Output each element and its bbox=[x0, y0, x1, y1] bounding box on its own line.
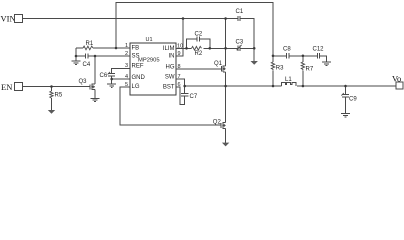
svg-text:L1: L1 bbox=[285, 77, 292, 83]
wire BST loop to C7 bottom bbox=[176, 87, 185, 104]
port VIN bbox=[1, 13, 23, 23]
capacitor C12 bbox=[313, 46, 325, 58]
svg-text:C8: C8 bbox=[283, 46, 291, 52]
svg-text:Q2: Q2 bbox=[213, 119, 222, 125]
ground (GND pin / C6, bar style) bbox=[107, 84, 116, 87]
node C8/C12/R7 bbox=[302, 55, 305, 58]
svg-text:2: 2 bbox=[125, 51, 128, 57]
wire R5 bottom stem bbox=[51, 98, 53, 111]
svg-text:6: 6 bbox=[178, 82, 181, 88]
wire C6 bottom to ground node bbox=[111, 76, 113, 84]
node SW/C7/rail bbox=[183, 85, 186, 88]
svg-text:EN: EN bbox=[1, 82, 12, 92]
svg-text:C4: C4 bbox=[83, 62, 91, 68]
capacitor C9 bbox=[342, 94, 349, 97]
node C3/PGND bbox=[253, 47, 256, 50]
node rail/C9 bbox=[344, 85, 347, 88]
svg-text:IN: IN bbox=[169, 54, 175, 60]
wire SS line left of C4 bbox=[76, 55, 85, 57]
wire IN riser from VIN rail bbox=[176, 19, 183, 57]
svg-text:R1: R1 bbox=[86, 41, 94, 47]
wire LG line down and to Q2 gate bbox=[120, 87, 221, 125]
wire ILIM line bbox=[176, 47, 192, 49]
node VIN/Q1 riser bbox=[224, 17, 227, 20]
svg-text:Q1: Q1 bbox=[214, 61, 223, 67]
pin 4 GND stub bbox=[122, 78, 130, 80]
svg-text:R7: R7 bbox=[306, 67, 314, 73]
wire C2 branch bbox=[187, 39, 197, 48]
node GND/C6 bbox=[110, 78, 113, 81]
node rail/R3 bbox=[272, 85, 275, 88]
wire SS line right of C4 bbox=[89, 55, 131, 57]
op-amp U1 MP2905 controller box bbox=[122, 37, 185, 95]
svg-text:C12: C12 bbox=[313, 46, 325, 52]
pin 5 LG stub bbox=[122, 86, 130, 88]
resistor R5 bbox=[50, 91, 63, 98]
wire Q1 drain riser bbox=[225, 48, 227, 66]
node rail/R7 bbox=[302, 85, 305, 88]
pin 3 REF stub bbox=[122, 68, 130, 70]
wire C9 stems bbox=[345, 86, 347, 94]
node C2 right bbox=[209, 47, 212, 50]
node FB riser bbox=[115, 47, 118, 50]
svg-text:C6: C6 bbox=[100, 73, 108, 79]
svg-text:C2: C2 bbox=[195, 32, 203, 38]
node EN/R5 bbox=[50, 85, 53, 88]
port Vo bbox=[392, 74, 403, 90]
wire C1 to corner down to PGND node bbox=[241, 19, 255, 49]
svg-text:MP2905: MP2905 bbox=[138, 57, 160, 63]
ground (C4 left, bar style) bbox=[72, 56, 81, 64]
transistor Q2 bbox=[221, 122, 226, 129]
svg-text:C9: C9 bbox=[349, 96, 357, 102]
svg-text:9: 9 bbox=[178, 51, 181, 57]
svg-text:U1: U1 bbox=[146, 37, 153, 43]
pin 10 ILIM stub bbox=[176, 47, 184, 49]
transistor Q1 bbox=[221, 66, 225, 73]
wire HG line to Q1 gate bbox=[176, 68, 221, 70]
svg-text:7: 7 bbox=[178, 74, 181, 80]
wire R5 top stem bbox=[51, 87, 53, 92]
wire C12 right corner to ground bbox=[320, 56, 327, 62]
capacitor C6 bbox=[108, 73, 115, 76]
pin 2 SS stub bbox=[122, 55, 130, 57]
inductor L1 bbox=[282, 77, 296, 86]
wire FB / R1 line bbox=[76, 47, 83, 49]
svg-text:BST: BST bbox=[163, 85, 175, 91]
wire SS riser down to Q3 drain bbox=[94, 56, 96, 84]
ground (C9, bar style) bbox=[341, 114, 350, 117]
pin 9 IN stub bbox=[176, 55, 183, 57]
wire top feedback rail bbox=[116, 3, 273, 56]
svg-text:C7: C7 bbox=[190, 94, 198, 100]
wire Q3 source stem bbox=[94, 89, 96, 98]
wire REF line to C6 bbox=[112, 69, 130, 74]
svg-text:FB: FB bbox=[132, 46, 140, 52]
port EN bbox=[1, 82, 23, 92]
svg-text:GND: GND bbox=[132, 75, 146, 81]
ground (Q2 source arrow style) bbox=[222, 143, 229, 147]
capacitor C2 bbox=[195, 32, 203, 42]
ground (Q3 source, bar style) bbox=[91, 98, 100, 101]
svg-text:ILIM: ILIM bbox=[163, 46, 175, 52]
pin 6 BST stub bbox=[176, 86, 180, 88]
svg-text:8: 8 bbox=[178, 64, 181, 70]
ground (R5 arrow style) bbox=[48, 110, 55, 114]
svg-text:1: 1 bbox=[125, 43, 128, 49]
capacitor C8 bbox=[283, 46, 291, 58]
node SS/C4/Q3 bbox=[94, 55, 97, 58]
wire GND pin line bbox=[112, 78, 130, 80]
node junction dots bbox=[50, 17, 347, 88]
wire SW stub down to C7 bbox=[176, 79, 185, 93]
resistor R1 bbox=[83, 41, 94, 50]
wire R1 left corner down bbox=[75, 48, 77, 56]
svg-text:4: 4 bbox=[125, 74, 128, 80]
wire EN line to Q3 gate bbox=[23, 86, 91, 88]
svg-text:R2: R2 bbox=[195, 51, 203, 57]
node ILIM/VIN riser bbox=[224, 47, 227, 50]
pin 8 HG stub bbox=[176, 68, 184, 70]
node R1/C4/gnd bbox=[75, 55, 78, 58]
wire FB lower line C8 segment bbox=[273, 55, 286, 57]
wire Q1 drain riser upper (VIN to ILIM node) bbox=[225, 19, 227, 49]
wire PGND arrow stem bbox=[253, 48, 255, 61]
svg-text:R3: R3 bbox=[276, 65, 284, 71]
pin 7 SW stub bbox=[176, 78, 185, 80]
ground (C12, bar style) bbox=[322, 62, 331, 65]
svg-text:LG: LG bbox=[132, 84, 140, 90]
svg-text:5: 5 bbox=[125, 82, 128, 88]
wire R3 stems bbox=[272, 56, 274, 62]
svg-text:R5: R5 bbox=[55, 92, 63, 98]
node VIN/IN riser bbox=[182, 17, 185, 20]
resistor R7 bbox=[301, 62, 314, 73]
capacitor C7 bbox=[181, 93, 189, 96]
capacitor C4 bbox=[83, 53, 91, 68]
capacitor C3 bbox=[236, 40, 244, 51]
svg-text:Q3: Q3 bbox=[79, 79, 88, 85]
svg-text:C1: C1 bbox=[236, 9, 244, 15]
svg-text:10: 10 bbox=[177, 43, 183, 49]
svg-text:REF: REF bbox=[132, 64, 144, 70]
ground (input PGND arrow style) bbox=[251, 61, 258, 65]
transistor Q3 bbox=[90, 84, 95, 90]
resistor R3 bbox=[271, 62, 284, 71]
wire C3 right to PGND node bbox=[241, 47, 255, 49]
wire Q2 source stem bbox=[225, 128, 227, 142]
pin 1 FB stub bbox=[122, 47, 130, 49]
wire SW output rail bbox=[185, 85, 282, 87]
svg-text:SW: SW bbox=[165, 75, 175, 81]
wire Q2 drain riser from rail bbox=[225, 86, 227, 122]
node ILIM/C2 left bbox=[185, 47, 188, 50]
wire Q1 source to rail bbox=[225, 72, 227, 86]
wire R7 stems bbox=[302, 56, 304, 62]
svg-text:3: 3 bbox=[125, 63, 128, 69]
svg-text:SS: SS bbox=[132, 54, 140, 60]
svg-text:VIN: VIN bbox=[1, 13, 16, 23]
capacitor C1 bbox=[236, 9, 244, 21]
resistor R2 bbox=[192, 46, 203, 56]
node rail/Q1/Q2 bbox=[224, 85, 227, 88]
svg-text:C3: C3 bbox=[236, 40, 244, 46]
svg-text:HG: HG bbox=[166, 64, 175, 70]
node FB/C8/R3 bbox=[272, 55, 275, 58]
wire VIN rail y=18.5 bbox=[23, 18, 238, 20]
